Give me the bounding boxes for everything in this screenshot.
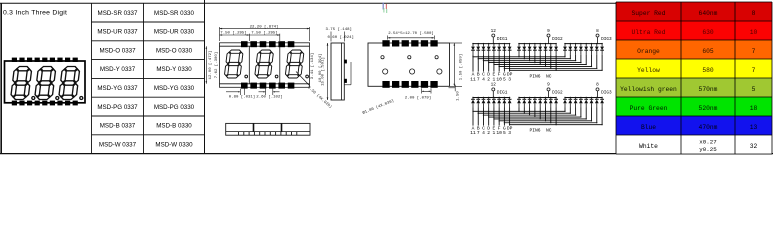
svg-text:Pure Green: Pure Green bbox=[630, 105, 668, 112]
LED digit2 segment B (top circuit) bbox=[522, 44, 526, 55]
model MSD-SR 0337 bbox=[98, 10, 138, 17]
svg-text:520nm: 520nm bbox=[699, 105, 718, 112]
svg-text:MSD-W 0330: MSD-W 0330 bbox=[155, 141, 193, 148]
LED digit1 segment F (top circuit) bbox=[497, 44, 501, 55]
svg-text:7.62 [.300]: 7.62 [.300] bbox=[214, 52, 219, 78]
dimension O1.00 (4X.039) hole leader bbox=[362, 99, 395, 116]
svg-text:12: 12 bbox=[491, 83, 497, 88]
svg-text:MSD-YG 0330: MSD-YG 0330 bbox=[154, 85, 195, 92]
front view top pins bbox=[241, 41, 294, 47]
LED digit1 segment B (bottom circuit) bbox=[476, 98, 480, 108]
color row Yellowish green bbox=[616, 78, 772, 97]
back view bottom solder pads bbox=[382, 81, 437, 88]
digit 1 eight-segment glyph (left pictogram) bbox=[10, 67, 34, 100]
svg-text:MSD-UR 0330: MSD-UR 0330 bbox=[154, 29, 195, 36]
wire segment C net (bottom circuit) bbox=[483, 108, 576, 126]
LED digit1 segment C (bottom circuit) bbox=[482, 98, 486, 108]
wire segment E net (bottom circuit) bbox=[493, 108, 587, 126]
digit 3 eight-segment glyph (left pictogram) bbox=[58, 67, 82, 100]
LED digit2 segment D (bottom circuit) bbox=[533, 98, 537, 108]
LED digit1 segment D (bottom circuit) bbox=[487, 98, 491, 108]
dimension 12.00 [.472] package height bbox=[206, 46, 213, 84]
model MSD-W 0330 bbox=[155, 141, 193, 148]
LED digit1 segment A (bottom circuit) bbox=[471, 98, 475, 108]
model MSD-UR 0330 bbox=[154, 29, 195, 36]
svg-text:DIG2: DIG2 bbox=[552, 37, 563, 42]
svg-text:7: 7 bbox=[752, 48, 756, 55]
dimension 7.62 [.300] digit height bbox=[214, 52, 219, 78]
dimension 10.00 [.394] bbox=[318, 54, 323, 83]
wire DIG3 bus (bottom circuit) bbox=[564, 91, 603, 98]
LED digit2 segment DP (top circuit) bbox=[554, 44, 558, 55]
LED digit2 segment E (bottom circuit) bbox=[538, 98, 542, 108]
wire segment A net (bottom circuit) bbox=[472, 108, 565, 126]
svg-text:NC: NC bbox=[546, 74, 552, 80]
svg-text:7.50 [.295]: 7.50 [.295] bbox=[220, 30, 246, 35]
LED digit3 segment DP (bottom circuit) bbox=[600, 98, 604, 108]
svg-text:MSD-W 0337: MSD-W 0337 bbox=[99, 141, 137, 148]
svg-text:x0.27: x0.27 bbox=[699, 139, 717, 146]
LED digit1 segment D (top circuit) bbox=[487, 44, 491, 55]
svg-text:2: 2 bbox=[487, 76, 490, 82]
digit 2 eight-segment glyph (left pictogram) bbox=[34, 67, 58, 100]
dimension 0.50 (4X.020) leader bbox=[296, 72, 333, 110]
svg-text:0.60 [.024]: 0.60 [.024] bbox=[328, 35, 354, 40]
LED digit1 segment DP (top circuit) bbox=[508, 44, 512, 55]
LED digit2 segment G (bottom circuit) bbox=[549, 98, 553, 108]
LED digit1 segment E (bottom circuit) bbox=[492, 98, 496, 108]
svg-text:MSD-B 0330: MSD-B 0330 bbox=[156, 123, 192, 130]
back view vent holes large bbox=[383, 69, 442, 74]
svg-text:5: 5 bbox=[752, 86, 756, 93]
svg-text:MSD-Y 0330: MSD-Y 0330 bbox=[156, 66, 192, 73]
color row Orange bbox=[616, 40, 772, 59]
model MSD-Y 0337 bbox=[100, 66, 136, 73]
wire segment E net (top circuit) bbox=[493, 54, 587, 71]
back view package outline bbox=[368, 43, 450, 86]
wire segment G net (top circuit) bbox=[504, 54, 598, 71]
model MSD-PG 0337 bbox=[97, 104, 138, 111]
wire segment A net (top circuit) bbox=[472, 54, 565, 71]
svg-text:3: 3 bbox=[508, 76, 511, 82]
svg-text:NC: NC bbox=[546, 127, 552, 133]
svg-text:630: 630 bbox=[702, 29, 714, 36]
LED digit3 segment A (top circuit) bbox=[563, 44, 567, 55]
dimension 15.00 [.591] side height bbox=[320, 43, 328, 100]
model MSD-O 0337 bbox=[99, 47, 136, 54]
color row Blue bbox=[616, 116, 772, 135]
side view package outline bbox=[331, 43, 344, 100]
back view vent holes small bbox=[381, 56, 438, 59]
label PIN6 NC (top circuit) bbox=[530, 74, 552, 80]
pin labels (bottom circuit) bbox=[470, 125, 512, 136]
svg-text:2.60 [.102]: 2.60 [.102] bbox=[256, 95, 282, 100]
wire DIG3 bus (top circuit) bbox=[564, 37, 603, 44]
svg-text:15.00 [.591]: 15.00 [.591] bbox=[320, 57, 325, 86]
svg-text:4: 4 bbox=[482, 130, 485, 136]
LED digit3 segment D (top circuit) bbox=[579, 44, 583, 55]
color table grid bbox=[616, 2, 772, 154]
model MSD-UR 0337 bbox=[97, 29, 138, 36]
dimension 22.20 [.874] overall width bbox=[220, 25, 310, 41]
LED digit2 segment C (bottom circuit) bbox=[528, 98, 532, 108]
svg-text:1.50: 1.50 bbox=[457, 91, 461, 101]
svg-text:MSD-UR 0337: MSD-UR 0337 bbox=[97, 29, 138, 36]
dimension 0.60 [.024] standoff bbox=[328, 35, 354, 40]
LED digit1 segment C (top circuit) bbox=[482, 44, 486, 55]
svg-text:y0.25: y0.25 bbox=[699, 146, 717, 153]
LED digit1 segment G (bottom circuit) bbox=[502, 98, 506, 108]
LED digit1 segment G (top circuit) bbox=[502, 44, 506, 55]
svg-text:DIG3: DIG3 bbox=[601, 91, 612, 96]
color row Ultra Red bbox=[616, 21, 772, 40]
wire DIG1 bus (bottom circuit) bbox=[472, 91, 510, 98]
pin labels (top circuit) bbox=[470, 72, 512, 83]
wire segment G net (bottom circuit) bbox=[504, 108, 598, 126]
svg-text:2.54*5=12.70 [.500]: 2.54*5=12.70 [.500] bbox=[388, 31, 434, 36]
node DIG3 pin 8 (top circuit) bbox=[596, 29, 612, 42]
dimension 1.50 [.059] pad length bbox=[459, 54, 464, 80]
LED digit1 segment E (top circuit) bbox=[492, 44, 496, 55]
svg-text:9: 9 bbox=[547, 83, 550, 88]
svg-text:4: 4 bbox=[482, 76, 485, 82]
front view package outline bbox=[220, 43, 310, 88]
dimension 6.10 [.240] bbox=[450, 43, 463, 86]
svg-text:MSD-O 0337: MSD-O 0337 bbox=[99, 47, 136, 54]
svg-text:MSD-B 0337: MSD-B 0337 bbox=[100, 123, 136, 130]
LED digit1 segment F (bottom circuit) bbox=[497, 98, 501, 108]
digit 1 eight-segment glyph (front view) bbox=[224, 50, 247, 78]
back view top solder pads bbox=[382, 40, 437, 46]
svg-text:5: 5 bbox=[503, 130, 506, 136]
svg-text:605: 605 bbox=[702, 48, 714, 55]
dimension 2.60 [.102] pin pitch bbox=[256, 89, 282, 100]
LED digit3 segment C (top circuit) bbox=[574, 44, 578, 55]
model MSD-SR 0330 bbox=[154, 10, 194, 17]
wire segment D net (bottom circuit) bbox=[488, 108, 582, 126]
svg-text:7: 7 bbox=[477, 76, 480, 82]
model MSD-YG 0337 bbox=[97, 85, 138, 92]
dimension 3.41 [.134] bbox=[310, 53, 315, 79]
artifact marks top center bbox=[383, 3, 388, 14]
wire DIG2 bus (top circuit) bbox=[518, 37, 557, 44]
svg-text:32: 32 bbox=[750, 143, 758, 150]
svg-text:11: 11 bbox=[470, 130, 476, 136]
svg-text:Yellow: Yellow bbox=[637, 67, 660, 74]
color row Super Red bbox=[616, 2, 772, 21]
LED digit3 segment G (top circuit) bbox=[595, 44, 599, 55]
svg-text:MSD-Y 0337: MSD-Y 0337 bbox=[100, 66, 136, 73]
svg-text:0.80 [.031]: 0.80 [.031] bbox=[229, 95, 255, 100]
svg-text:3.41 [.134]: 3.41 [.134] bbox=[310, 53, 315, 79]
digit 3 eight-segment glyph (front view) bbox=[285, 50, 308, 78]
LED digit2 segment A (top circuit) bbox=[517, 44, 521, 55]
svg-text:Ultra Red: Ultra Red bbox=[631, 29, 665, 36]
svg-text:580: 580 bbox=[702, 67, 714, 74]
LED digit3 segment E (bottom circuit) bbox=[584, 98, 588, 108]
LED digit2 segment D (top circuit) bbox=[533, 44, 537, 55]
svg-text:MSD-O 0330: MSD-O 0330 bbox=[156, 47, 193, 54]
display package outline (left pictogram) bbox=[5, 61, 86, 103]
LED digit3 segment E (top circuit) bbox=[584, 44, 588, 55]
svg-text:DIG1: DIG1 bbox=[497, 37, 508, 42]
table bottom border bbox=[0, 153, 773, 155]
svg-text:MSD-YG 0337: MSD-YG 0337 bbox=[97, 85, 138, 92]
svg-text:470nm: 470nm bbox=[699, 124, 718, 131]
LED digit1 segment B (top circuit) bbox=[476, 44, 480, 55]
svg-text:Orange: Orange bbox=[637, 48, 660, 55]
LED digit1 segment DP (bottom circuit) bbox=[508, 98, 512, 108]
label PIN6 NC (bottom circuit) bbox=[530, 127, 552, 133]
LED digit2 segment C (top circuit) bbox=[528, 44, 532, 55]
LED digit3 segment F (top circuit) bbox=[590, 44, 594, 55]
svg-text:12: 12 bbox=[491, 29, 497, 34]
digit 2 eight-segment glyph (front view) bbox=[254, 50, 277, 78]
front view bottom pins bbox=[241, 83, 294, 89]
svg-text:7: 7 bbox=[752, 67, 756, 74]
wire segment D net (top circuit) bbox=[488, 54, 582, 71]
node DIG1 pin 12 (bottom circuit) bbox=[491, 83, 508, 96]
dimension 1.50 pad length lower right bbox=[449, 85, 461, 101]
svg-text:White: White bbox=[639, 143, 658, 150]
model MSD-O 0330 bbox=[156, 47, 193, 54]
LED digit3 segment D (bottom circuit) bbox=[579, 98, 583, 108]
svg-text:11: 11 bbox=[470, 76, 476, 82]
svg-text:7.50 [.295]: 7.50 [.295] bbox=[251, 30, 277, 35]
svg-text:10: 10 bbox=[496, 76, 502, 82]
svg-text:1.50 [.059]: 1.50 [.059] bbox=[459, 54, 464, 80]
svg-text:9: 9 bbox=[547, 29, 550, 34]
svg-text:13: 13 bbox=[750, 124, 758, 131]
svg-text:DIG1: DIG1 bbox=[497, 91, 508, 96]
dimension 7.50 [.295] digit pitch x2 bbox=[220, 30, 280, 41]
title text 0.3 Inch Three Digit bbox=[3, 9, 67, 16]
model MSD-B 0330 bbox=[156, 123, 192, 130]
model MSD-W 0337 bbox=[99, 141, 137, 148]
LED digit2 segment F (top circuit) bbox=[544, 44, 548, 55]
color row Pure Green bbox=[616, 97, 772, 116]
LED digit3 segment F (bottom circuit) bbox=[590, 98, 594, 108]
LED digit2 segment DP (bottom circuit) bbox=[554, 98, 558, 108]
top view pin ends bbox=[239, 132, 297, 136]
svg-text:1: 1 bbox=[493, 76, 496, 82]
LED digit3 segment B (top circuit) bbox=[568, 44, 572, 55]
LED digit2 segment A (bottom circuit) bbox=[517, 98, 521, 108]
wire segment F net (top circuit) bbox=[499, 54, 593, 71]
wire DIG1 bus (top circuit) bbox=[472, 37, 510, 44]
LED digit2 segment E (top circuit) bbox=[538, 44, 542, 55]
svg-text:1: 1 bbox=[493, 130, 496, 136]
wire segment DP net (top circuit) bbox=[509, 54, 603, 71]
svg-text:0.3 Inch Three Digit: 0.3 Inch Three Digit bbox=[3, 9, 67, 16]
wire segment B net (bottom circuit) bbox=[478, 108, 571, 126]
display top pins (left pictogram) bbox=[12, 58, 78, 62]
svg-text:DIG3: DIG3 bbox=[601, 37, 612, 42]
wire DIG2 bus (bottom circuit) bbox=[518, 91, 557, 98]
side view pin stubs bbox=[344, 60, 351, 85]
model table grid bbox=[92, 3, 205, 153]
node DIG1 pin 12 (top circuit) bbox=[491, 29, 508, 42]
table left border bbox=[0, 3, 2, 153]
LED digit3 segment A (bottom circuit) bbox=[563, 98, 567, 108]
LED digit3 segment DP (top circuit) bbox=[600, 44, 604, 55]
svg-text:10: 10 bbox=[496, 130, 502, 136]
svg-text:MSD-SR 0337: MSD-SR 0337 bbox=[98, 10, 138, 17]
svg-text:MSD-SR 0330: MSD-SR 0330 bbox=[154, 10, 194, 17]
svg-text:MSD-PG 0337: MSD-PG 0337 bbox=[97, 104, 138, 111]
wire segment C net (top circuit) bbox=[483, 54, 576, 71]
svg-text:5: 5 bbox=[503, 76, 506, 82]
dimension 3.75 [.148] depth bbox=[326, 27, 352, 42]
LED digit2 segment B (bottom circuit) bbox=[522, 98, 526, 108]
wire segment F net (bottom circuit) bbox=[499, 108, 593, 126]
svg-text:8: 8 bbox=[752, 10, 756, 17]
svg-text:Blue: Blue bbox=[641, 124, 656, 131]
svg-text:DIG2: DIG2 bbox=[552, 91, 563, 96]
display bottom pins (left pictogram) bbox=[12, 101, 78, 106]
svg-text:18: 18 bbox=[750, 105, 758, 112]
svg-text:7: 7 bbox=[477, 130, 480, 136]
svg-text:2.00 [.079]: 2.00 [.079] bbox=[405, 96, 431, 101]
dimension 0.80 [.031] pin width bbox=[226, 89, 255, 100]
dimension 2.00 [.079] pad width bbox=[405, 88, 431, 100]
top view package outline bbox=[226, 123, 310, 135]
wire segment DP net (bottom circuit) bbox=[509, 108, 603, 126]
table top border bbox=[0, 2, 616, 4]
svg-text:3.75 [.148]: 3.75 [.148] bbox=[326, 27, 352, 32]
model MSD-PG 0330 bbox=[154, 104, 195, 111]
model MSD-YG 0330 bbox=[154, 85, 195, 92]
node DIG2 pin 9 (top circuit) bbox=[547, 29, 563, 42]
model MSD-B 0337 bbox=[100, 123, 136, 130]
svg-text:10: 10 bbox=[750, 29, 758, 36]
svg-text:22.20 [.874]: 22.20 [.874] bbox=[250, 25, 279, 30]
model MSD-Y 0330 bbox=[156, 66, 192, 73]
dimension 2.54*5=12.70 [.500] pad pitch bbox=[388, 31, 435, 39]
wire segment B net (top circuit) bbox=[478, 54, 571, 71]
svg-text:570nm: 570nm bbox=[699, 86, 718, 93]
svg-text:8: 8 bbox=[596, 83, 599, 88]
LED digit2 segment G (top circuit) bbox=[549, 44, 553, 55]
svg-text:MSD-PG 0330: MSD-PG 0330 bbox=[154, 104, 195, 111]
LED digit2 segment F (bottom circuit) bbox=[544, 98, 548, 108]
LED digit3 segment G (bottom circuit) bbox=[595, 98, 599, 108]
node DIG2 pin 9 (bottom circuit) bbox=[547, 83, 563, 96]
LED digit3 segment B (bottom circuit) bbox=[568, 98, 572, 108]
color row Yellow bbox=[616, 59, 772, 78]
svg-text:12.00 [.472]: 12.00 [.472] bbox=[208, 51, 213, 80]
svg-text:640nm: 640nm bbox=[699, 10, 718, 17]
svg-text:2: 2 bbox=[487, 130, 490, 136]
svg-text:8: 8 bbox=[596, 29, 599, 34]
svg-text:PIN6: PIN6 bbox=[530, 74, 541, 80]
svg-text:PIN6: PIN6 bbox=[530, 127, 541, 133]
LED digit3 segment C (bottom circuit) bbox=[574, 98, 578, 108]
svg-text:Super Red: Super Red bbox=[631, 10, 665, 17]
svg-text:Yellowish green: Yellowish green bbox=[620, 86, 677, 93]
divider between model table and drawing area bbox=[204, 0, 206, 154]
node DIG3 pin 8 (bottom circuit) bbox=[596, 83, 612, 96]
svg-text:3: 3 bbox=[508, 130, 511, 136]
LED digit1 segment A (top circuit) bbox=[471, 44, 475, 55]
color row White bbox=[616, 135, 772, 154]
